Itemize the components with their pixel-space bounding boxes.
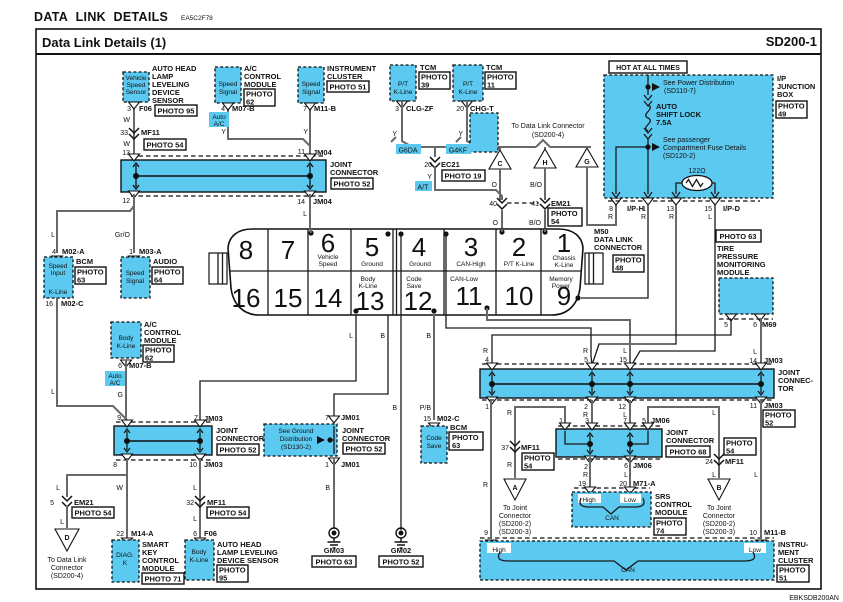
dashed boundary above JM04 [131, 155, 326, 157]
svg-text:MF11: MF11 [207, 498, 226, 507]
svg-text:Memory: Memory [549, 276, 573, 283]
photo 48 [613, 255, 644, 273]
svg-text:2: 2 [584, 464, 588, 471]
pin labels 9 7 JM03 [117, 414, 223, 423]
svg-text:10: 10 [505, 281, 534, 311]
svg-text:7.5A: 7.5A [656, 118, 672, 127]
svg-text:6: 6 [118, 363, 122, 370]
svg-text:P/T: P/T [463, 81, 473, 88]
svg-text:PHOTO 19: PHOTO 19 [445, 172, 482, 181]
wire M69 pin5 to JM03 pin4 [492, 319, 731, 364]
svg-text:CLUSTER: CLUSTER [778, 556, 814, 565]
wire JM04 pin12 split to M02-A and M03-A [57, 194, 134, 253]
svg-text:CONNECTOR: CONNECTOR [330, 168, 379, 177]
label AUDIO [153, 257, 177, 266]
svg-text:G6DA: G6DA [398, 148, 417, 155]
node see power distribution [645, 80, 734, 95]
svg-text:EM21: EM21 [551, 199, 571, 208]
svg-text:40: 40 [489, 201, 497, 208]
dashed boundary above cluster [480, 538, 774, 547]
svg-text:W: W [116, 485, 123, 492]
component TCM 2 P/T K-line [453, 65, 483, 108]
svg-text:Save: Save [407, 283, 422, 290]
label A/C CONTROL MODULE [244, 64, 281, 89]
photo 62 [244, 89, 275, 107]
svg-text:JM03: JM03 [764, 401, 783, 410]
svg-text:P/T K-Line: P/T K-Line [504, 261, 535, 268]
photo 52 [343, 443, 385, 454]
component BCM code save [421, 426, 447, 463]
svg-text:15: 15 [704, 206, 712, 213]
svg-text:MF11: MF11 [521, 443, 540, 452]
svg-text:PHOTO 51: PHOTO 51 [330, 83, 367, 92]
pin labels 8 10 JM03 [113, 460, 223, 469]
svg-text:PHOTO 95: PHOTO 95 [158, 107, 195, 116]
svg-text:(SD110-7): (SD110-7) [664, 88, 696, 95]
svg-text:B: B [426, 333, 431, 340]
svg-text:EBKSDB200AN: EBKSDB200AN [789, 595, 839, 602]
svg-text:R: R [641, 214, 646, 221]
svg-text:5: 5 [724, 322, 728, 329]
svg-text:R: R [583, 472, 588, 479]
svg-text:A/C: A/C [214, 121, 225, 128]
wire triangle A via MF11 37 to JM06 pin1 [507, 407, 565, 478]
svg-text:SD200-1: SD200-1 [766, 34, 817, 49]
ground GM02 [391, 528, 411, 555]
svg-text:Y: Y [427, 174, 432, 181]
wire M07-B to JM03 pin 9 [118, 360, 126, 420]
photo 54 [724, 438, 756, 456]
wires JM06 to SRS [590, 457, 630, 490]
wire color Y [303, 129, 308, 136]
svg-text:Input: Input [51, 270, 66, 277]
wire M02-C to JM03 pin 9 [57, 298, 127, 420]
svg-text:1: 1 [325, 462, 329, 469]
svg-text:L: L [754, 472, 758, 479]
svg-text:M07-B: M07-B [232, 104, 255, 113]
label INSTRU-MENT CLUSTER [778, 540, 814, 565]
svg-text:R: R [583, 348, 588, 355]
svg-text:BCM: BCM [450, 423, 467, 432]
svg-text:MODULE: MODULE [717, 268, 750, 277]
photo 62 [143, 345, 174, 363]
node cell12 [431, 308, 436, 313]
svg-text:Vehicle: Vehicle [318, 254, 339, 261]
svg-text:63: 63 [452, 441, 460, 450]
node see passenger compartment fuse details [616, 137, 747, 194]
net label G6DA [396, 144, 421, 155]
photo 74 [654, 518, 686, 536]
svg-text:64: 64 [154, 276, 163, 285]
svg-text:(SD200-3): (SD200-3) [703, 529, 735, 536]
svg-text:7: 7 [194, 415, 198, 422]
wire to D triangle [60, 505, 67, 528]
title: DATA LINK DETAILS [34, 10, 213, 24]
photo 51 [777, 565, 809, 583]
svg-text:Ground: Ground [361, 261, 383, 268]
pin labels below [485, 401, 783, 419]
component SRS CAN box [572, 492, 651, 527]
label BCM [76, 257, 93, 266]
svg-text:41: 41 [531, 201, 539, 208]
wire instrument cluster to JM04 pin 11 [309, 105, 311, 158]
label SMART KEY CONTROL MODULE [142, 540, 179, 573]
dashed boundary below [482, 399, 774, 401]
svg-text:5: 5 [50, 500, 54, 507]
svg-text:CONNECTOR: CONNECTOR [342, 434, 391, 443]
ground GM03 [324, 528, 344, 555]
wire vehicle speed sensor to JM04 pin 13 [133, 104, 135, 158]
svg-text:(SD200-3): (SD200-3) [499, 529, 531, 536]
pin 4 M02-A [52, 247, 86, 263]
svg-text:A/T: A/T [418, 185, 430, 192]
svg-text:TOR: TOR [778, 384, 794, 393]
label JOINT CONNECTOR (JM04) [330, 160, 379, 177]
wire EC21 to junction 40 [435, 166, 502, 200]
wire color L [56, 485, 60, 492]
svg-text:PHOTO 71: PHOTO 71 [145, 575, 182, 584]
svg-text:M69: M69 [762, 320, 777, 329]
note to data link connector [48, 557, 87, 580]
wire color W [116, 485, 123, 492]
svg-text:B: B [392, 405, 397, 412]
pin 6 M07-B [118, 361, 152, 370]
svg-text:2: 2 [512, 232, 526, 262]
dashed connector line below fuse box [608, 200, 760, 202]
svg-text:B/O: B/O [530, 182, 543, 189]
cell function labels top [318, 254, 577, 269]
svg-text:W: W [123, 117, 130, 124]
photo 52 [217, 444, 259, 455]
svg-text:Speed: Speed [127, 82, 146, 89]
svg-text:PHOTO 52: PHOTO 52 [383, 558, 420, 567]
svg-text:1: 1 [129, 249, 133, 256]
svg-text:M14-A: M14-A [131, 529, 154, 538]
connector JM06 body [556, 423, 662, 463]
svg-text:MF11: MF11 [725, 457, 744, 466]
pin labels 7 JM01 [325, 413, 360, 422]
junction MF11 pin 24 [705, 454, 744, 466]
svg-text:L: L [708, 214, 712, 221]
svg-text:G: G [118, 392, 123, 399]
label TCM [420, 63, 436, 72]
wire labels above [483, 348, 783, 365]
svg-text:14: 14 [314, 283, 343, 313]
svg-text:PHOTO 63: PHOTO 63 [720, 232, 757, 241]
node cell13 [353, 308, 358, 313]
component instrument cluster CAN box [480, 541, 774, 580]
photo 51 [327, 81, 369, 92]
note to joint connector [703, 505, 736, 536]
svg-text:Body: Body [192, 549, 208, 556]
wire DLC cell13 to JM03 pin 7 [200, 313, 356, 420]
svg-text:(SD130-2): (SD130-2) [281, 444, 311, 451]
svg-text:R: R [507, 462, 512, 469]
wire color W [123, 141, 130, 148]
svg-text:24: 24 [705, 459, 713, 466]
svg-text:CONNECTOR: CONNECTOR [666, 436, 715, 445]
cell numbers bottom row [232, 281, 572, 316]
photo 49 [776, 101, 807, 119]
svg-text:PHOTO 52: PHOTO 52 [346, 445, 383, 454]
svg-text:Y: Y [458, 131, 463, 138]
label TIRE PRESSURE MONITORING MODULE [717, 244, 766, 277]
box exit arrows [612, 192, 719, 198]
JM04 pin labels bottom [122, 197, 332, 206]
pin 20 CHG-T [456, 104, 494, 113]
svg-text:11: 11 [750, 403, 757, 410]
svg-text:PHOTO 54: PHOTO 54 [147, 141, 185, 150]
svg-text:TCM: TCM [420, 63, 436, 72]
svg-text:CAN: CAN [621, 567, 635, 574]
wire G to fuse box pin 8 [587, 167, 622, 225]
wire CLG-ZF to bus [391, 101, 412, 147]
wire JM03 pin12 to JM06 pin7 [629, 400, 631, 424]
svg-text:Sensor: Sensor [126, 89, 147, 96]
svg-text:P/B: P/B [420, 405, 432, 412]
svg-text:Gr/O: Gr/O [115, 232, 131, 239]
wire fuse pin13 to JM03 pin5 [592, 198, 682, 365]
wire hot feed [647, 75, 649, 95]
svg-text:K-Line: K-Line [459, 89, 478, 96]
sheet header [42, 34, 817, 50]
svg-text:M02-C: M02-C [437, 414, 460, 423]
cell numbers top row [239, 228, 571, 265]
pin 1 M03-A [129, 247, 163, 263]
label M50 DATA LINK CONNECTOR [594, 227, 643, 252]
svg-text:L: L [712, 410, 716, 417]
component: instrument cluster speed signal [298, 67, 324, 110]
bus wire to data link connector SD200-4 [412, 140, 591, 147]
svg-text:(SD200-2): (SD200-2) [499, 521, 531, 528]
svg-text:See passenger: See passenger [663, 137, 711, 144]
dashed boundary below JM06 [558, 458, 662, 460]
svg-text:12: 12 [618, 404, 626, 411]
joint connector JM01 see ground distribution [264, 416, 340, 465]
I/P junction box [604, 75, 773, 198]
svg-text:Low: Low [749, 547, 761, 554]
wire color L [193, 485, 197, 492]
wire fuse pin15 to JM03 pin15 [631, 198, 721, 366]
svg-text:12: 12 [122, 198, 130, 205]
photo 39 [419, 72, 450, 90]
dashed link 40 to 41 [507, 202, 539, 204]
svg-text:Speed: Speed [219, 81, 238, 88]
wire fuse pin1 to DLC cell9 [581, 198, 654, 298]
pin 3 CLG-ZF [395, 104, 434, 113]
component M: vehicle speed sensor [123, 72, 149, 109]
svg-text:H: H [542, 160, 547, 167]
pin 16 M02-C [45, 299, 84, 308]
svg-text:HOT AT ALL TIMES: HOT AT ALL TIMES [616, 65, 680, 72]
connector JM03 left body [114, 420, 212, 461]
svg-text:L: L [712, 472, 716, 479]
svg-text:48: 48 [615, 264, 623, 273]
junction MF11 pin 33 [120, 128, 160, 139]
svg-text:32: 32 [186, 500, 194, 507]
wire color L [349, 333, 353, 340]
svg-text:1: 1 [557, 228, 571, 258]
component smart key DIAG K [112, 540, 139, 582]
svg-text:1: 1 [485, 404, 489, 411]
junction EM21 pin 41 [531, 198, 570, 209]
node cell4 / ground wire through [398, 231, 403, 530]
svg-text:Speed: Speed [302, 81, 321, 88]
label: AUTO HEAD LAMP LEVELING DEVICE SENSOR [152, 64, 197, 105]
label JOINT CONNECTOR [216, 426, 265, 443]
label AUTO HEAD LAMP LEVELING DEVICE SENSOR [217, 540, 279, 565]
svg-text:8: 8 [239, 235, 253, 265]
svg-text:M02-A: M02-A [62, 247, 85, 256]
svg-text:M02-C: M02-C [61, 299, 84, 308]
svg-text:4: 4 [52, 249, 56, 256]
svg-text:95: 95 [219, 574, 227, 583]
svg-text:Body: Body [119, 335, 135, 342]
wire DLC cell5 ground to JM01 pin 7 [334, 234, 388, 420]
svg-text:JM03: JM03 [204, 460, 223, 469]
svg-text:20: 20 [456, 106, 464, 113]
photo 54 [207, 507, 249, 518]
svg-text:CAN-High: CAN-High [456, 261, 486, 268]
svg-text:D: D [64, 535, 69, 542]
photo 52 [331, 178, 373, 189]
svg-text:11: 11 [298, 149, 305, 156]
off-page triangle A [504, 479, 526, 500]
svg-text:Connector: Connector [703, 513, 736, 520]
svg-text:EM21: EM21 [74, 498, 94, 507]
pin 22 M14-A [116, 529, 154, 545]
svg-text:MODULE: MODULE [655, 508, 688, 517]
svg-text:K-Line: K-Line [117, 343, 136, 350]
svg-text:4: 4 [412, 232, 426, 262]
net label A/T [415, 181, 432, 192]
svg-text:A/C: A/C [110, 380, 121, 387]
node cell1 [542, 229, 547, 235]
pin labels JM06 bottom [583, 461, 652, 479]
connector M50 shell [209, 229, 603, 315]
wire JM03 pin11 to cluster pin10 [754, 400, 761, 537]
dashed boundary below [116, 459, 212, 461]
dashed boundary below JM04 [131, 195, 326, 197]
photo 52 [763, 410, 795, 428]
svg-text:CONNECTOR: CONNECTOR [216, 434, 265, 443]
svg-text:7: 7 [303, 106, 307, 113]
svg-text:11: 11 [456, 281, 483, 311]
label SRS CONTROL MODULE [655, 492, 692, 517]
svg-text:(SD120-2): (SD120-2) [663, 153, 695, 160]
connector JM04 body [121, 154, 326, 198]
svg-text:12: 12 [404, 286, 433, 316]
unlabeled module box [470, 113, 498, 152]
wire JM03 pin8 down with branch to EM21 [67, 458, 127, 538]
label TCM [486, 63, 502, 72]
svg-text:L: L [60, 519, 64, 526]
svg-text:Speed: Speed [126, 270, 145, 277]
svg-text:To Joint: To Joint [707, 505, 731, 512]
wire color B [380, 333, 385, 340]
wire triangle B via MF11 24 to JM06 pin5 [648, 407, 719, 478]
svg-text:16: 16 [45, 301, 53, 308]
svg-text:Body: Body [361, 276, 377, 283]
label HOT AT ALL TIMES [609, 61, 687, 73]
wire color Y [427, 174, 432, 181]
svg-text:M11-B: M11-B [314, 104, 337, 113]
photo 64 [152, 267, 183, 285]
svg-text:PHOTO 63: PHOTO 63 [316, 558, 353, 567]
svg-text:O: O [493, 220, 499, 227]
note to data link connector [511, 123, 585, 139]
pin 3 F06 [127, 104, 152, 113]
svg-text:O: O [492, 182, 498, 189]
off-page triangle D [55, 529, 79, 551]
svg-text:L: L [624, 472, 628, 479]
svg-text:74: 74 [656, 527, 665, 536]
svg-text:L: L [193, 485, 197, 492]
component auto head lamp body k-line [185, 540, 214, 580]
svg-text:R: R [608, 214, 613, 221]
svg-text:20: 20 [424, 162, 432, 169]
svg-text:Connector: Connector [499, 513, 532, 520]
svg-text:W: W [123, 141, 130, 148]
photo 63 [716, 230, 761, 242]
svg-text:K-Line: K-Line [359, 283, 378, 290]
junction MF11 pin 32 [186, 496, 226, 507]
wire JM04 pin14 to DLC cell6 [303, 194, 310, 228]
svg-text:C: C [497, 161, 502, 168]
svg-text:L: L [623, 348, 627, 355]
svg-text:GM03: GM03 [324, 546, 344, 555]
photo 95 [155, 105, 197, 116]
svg-text:PHOTO 68: PHOTO 68 [670, 448, 707, 457]
svg-text:Speed: Speed [49, 263, 68, 270]
pin labels 1 JM01 [325, 460, 360, 469]
svg-text:15: 15 [423, 416, 431, 423]
net label Auto A/C [209, 112, 229, 128]
svg-text:See Power Distribution: See Power Distribution [663, 80, 734, 87]
photo 63 [75, 267, 106, 285]
svg-text:See Ground: See Ground [278, 428, 313, 435]
svg-text:L: L [753, 349, 757, 356]
svg-text:52: 52 [765, 419, 773, 428]
svg-text:R: R [483, 482, 488, 489]
wire 40 to DLC cell2 [493, 210, 502, 229]
svg-text:I/P-D: I/P-D [723, 204, 741, 213]
svg-text:MODULE: MODULE [244, 80, 277, 89]
svg-text:MODULE: MODULE [142, 564, 175, 573]
wire color B on GM02 wire [392, 405, 397, 412]
svg-text:33: 33 [120, 130, 128, 137]
svg-text:P/T: P/T [398, 81, 408, 88]
component AUDIO speed signal [121, 257, 150, 298]
svg-text:Compartment Fuse Details: Compartment Fuse Details [663, 145, 747, 152]
wire color L [51, 232, 55, 239]
fuse AUTO SHIFT LOCK 7.5A [644, 95, 702, 143]
wire color W [123, 117, 130, 124]
photo 95 [217, 565, 248, 583]
svg-text:F06: F06 [204, 529, 217, 538]
svg-text:Code: Code [426, 435, 442, 442]
svg-text:R: R [483, 348, 488, 355]
svg-text:Ground: Ground [409, 261, 431, 268]
svg-text:PHOTO 54: PHOTO 54 [75, 509, 113, 518]
svg-text:7: 7 [281, 235, 295, 265]
svg-text:B/O: B/O [529, 220, 542, 227]
svg-text:GM02: GM02 [391, 546, 411, 555]
svg-text:L: L [51, 389, 55, 396]
svg-text:10: 10 [749, 530, 757, 537]
photo 71 [142, 573, 184, 584]
wire C to junction 40 [492, 169, 500, 200]
